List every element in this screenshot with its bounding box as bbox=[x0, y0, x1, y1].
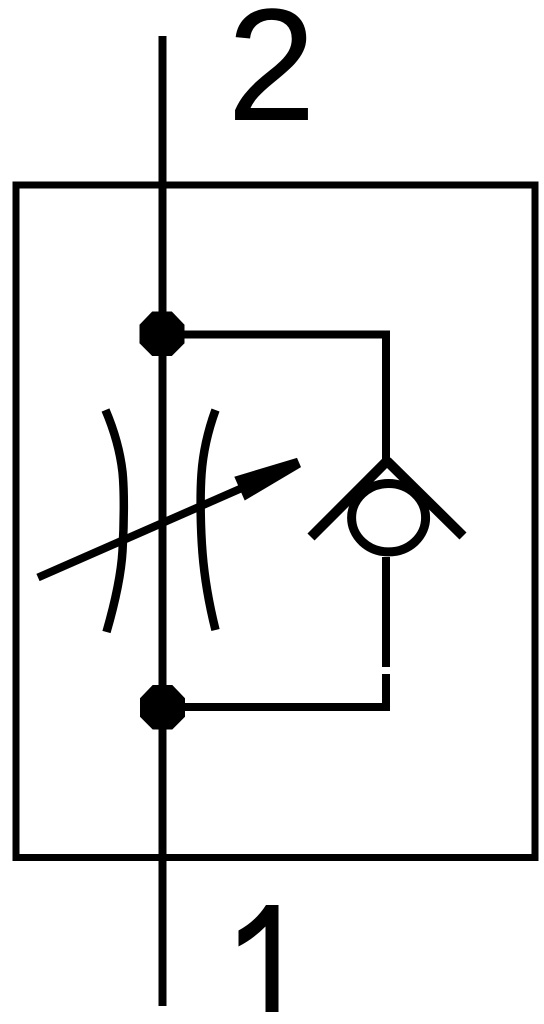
adjustment arrow shaft bbox=[38, 481, 258, 578]
throttle restriction right curve bbox=[201, 410, 216, 630]
wire: top bypass horizontal segment bbox=[162, 331, 386, 339]
wire: bypass right vertical upper segment bbox=[382, 331, 390, 463]
check valve seat right leg bbox=[387, 461, 463, 536]
wire: bypass right vertical stub below gap bbox=[382, 674, 390, 711]
adjustment arrow head bbox=[234, 458, 301, 501]
port label 1 bbox=[239, 905, 279, 1012]
throttle restriction left curve bbox=[106, 410, 124, 632]
check valve seat left leg bbox=[311, 461, 387, 537]
wire: bottom bypass horizontal segment bbox=[162, 703, 390, 711]
wire: bypass right vertical lower segment bbox=[382, 557, 390, 667]
svg-text:2: 2 bbox=[227, 0, 316, 154]
check valve ball circle bbox=[352, 484, 426, 552]
junction node bottom bbox=[140, 685, 185, 730]
enclosure box bbox=[16, 185, 535, 858]
wire: main vertical line port 2 to port 1 bbox=[159, 36, 167, 1006]
junction node top bbox=[140, 312, 185, 357]
